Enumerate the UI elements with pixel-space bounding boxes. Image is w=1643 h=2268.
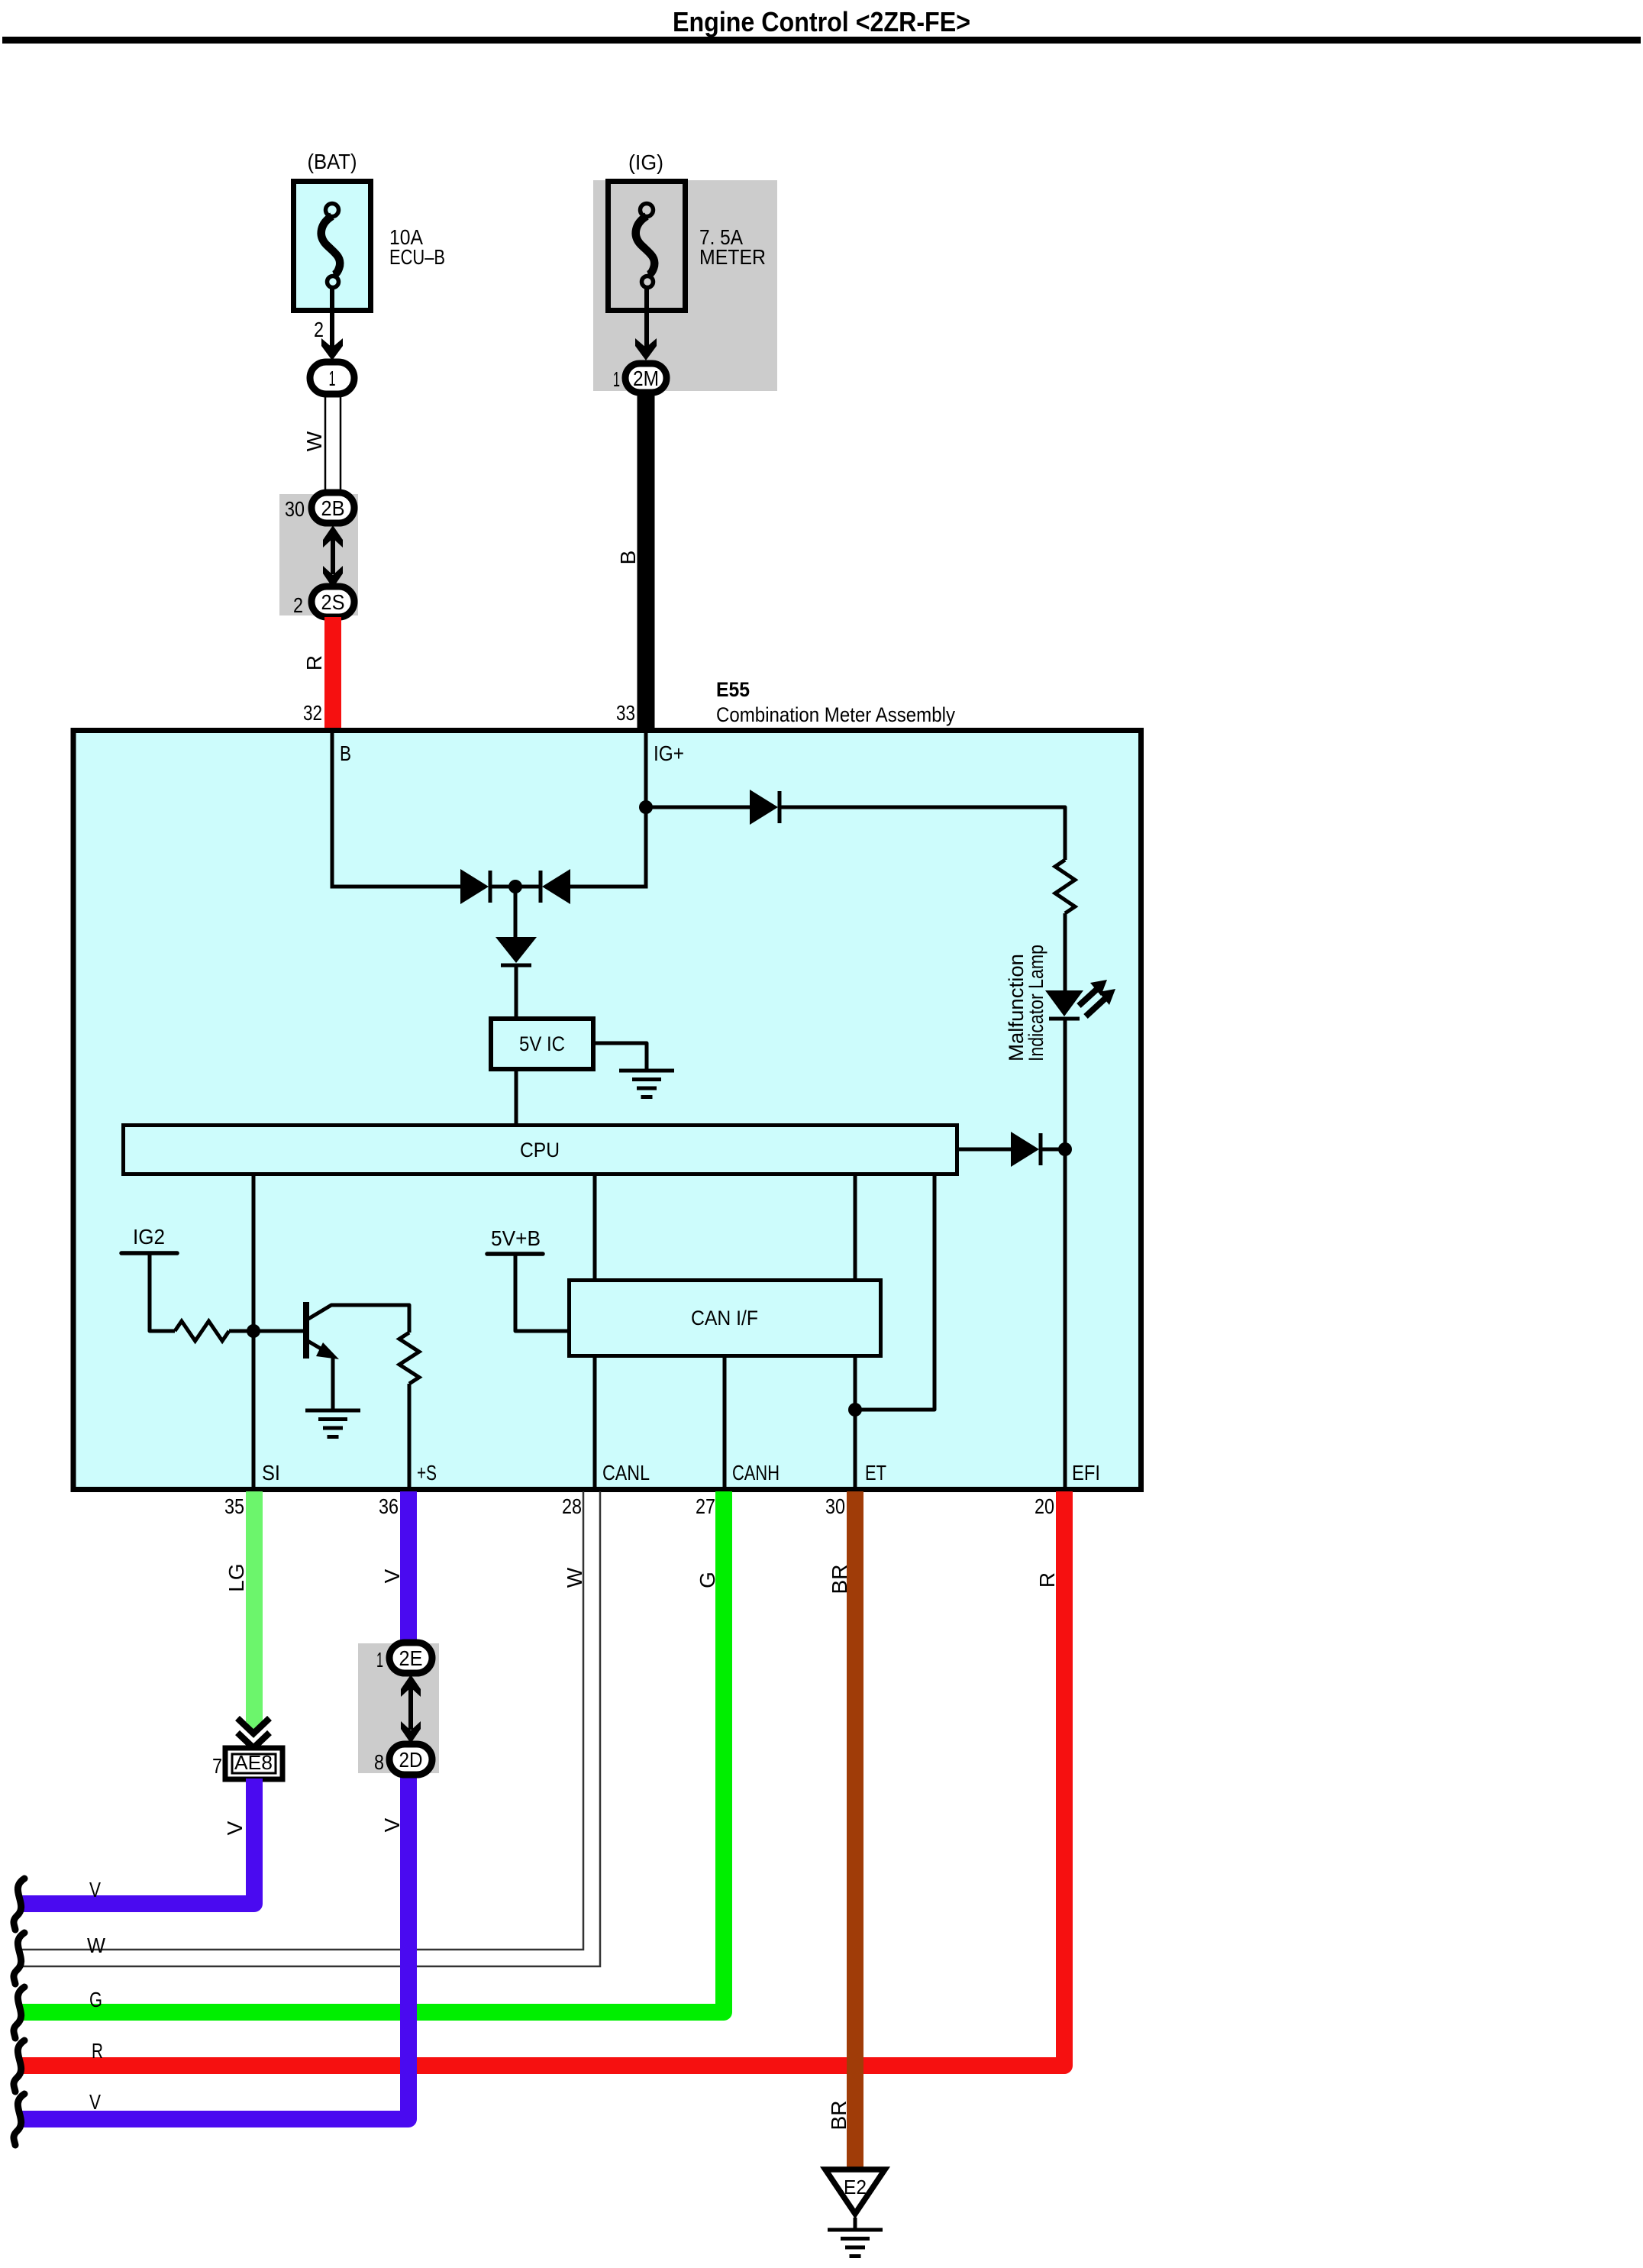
wire V +S upper segment (violet) bbox=[400, 1491, 417, 1645]
svg-text:SI: SI bbox=[262, 1461, 280, 1485]
wire ET from CAN I/F bbox=[854, 1358, 857, 1489]
wire CANH from CAN I/F bbox=[723, 1358, 727, 1489]
connector 2M bbox=[625, 363, 667, 393]
svg-text:2S: 2S bbox=[321, 590, 345, 614]
svg-text:2D: 2D bbox=[399, 1748, 423, 1772]
CAN I/F box bbox=[570, 1281, 881, 1356]
diode D2 left bbox=[542, 869, 570, 904]
gray background behind connectors 2B/2S bbox=[279, 494, 358, 615]
svg-text:CANL: CANL bbox=[602, 1461, 650, 1485]
wire CANL from CAN I/F bbox=[593, 1358, 597, 1489]
wire IG+ pin down bbox=[644, 733, 648, 889]
gray background behind connectors 2E/2D bbox=[358, 1643, 439, 1773]
svg-text:2B: 2B bbox=[321, 496, 345, 520]
wire node to diode D4 bbox=[514, 887, 518, 939]
connector 2B bbox=[311, 493, 354, 523]
EFI node bbox=[1058, 1142, 1072, 1156]
wire LED to EFI node bbox=[1064, 1019, 1067, 1149]
title rule bbox=[2, 37, 1641, 44]
svg-text:R: R bbox=[92, 2039, 103, 2063]
wire V from AE8 (violet) bbox=[21, 1779, 254, 1904]
svg-text:BR: BR bbox=[827, 2101, 851, 2131]
svg-text:5V+B: 5V+B bbox=[491, 1226, 541, 1250]
svg-text:1: 1 bbox=[376, 1648, 383, 1672]
wire fuse METER to connector 2M bbox=[644, 289, 649, 348]
wire BR ET to E2 (brown) bbox=[847, 1491, 863, 2167]
svg-text:W: W bbox=[563, 1567, 586, 1588]
svg-text:V: V bbox=[223, 1821, 247, 1835]
wire IG+ node to diode D3 bbox=[646, 806, 750, 809]
svg-text:ECU–B: ECU–B bbox=[389, 245, 445, 269]
svg-text:28: 28 bbox=[562, 1494, 582, 1518]
wire B to diode pair bbox=[331, 885, 462, 889]
wire D2 to IG+ line bbox=[570, 885, 647, 889]
svg-text:8: 8 bbox=[374, 1750, 384, 1774]
wire R from 2S to pin 32 (red) bbox=[324, 617, 341, 728]
wire resistor to SI node bbox=[229, 1329, 255, 1333]
resistor base bbox=[175, 1321, 229, 1341]
wire D5 to EFI node bbox=[1042, 1148, 1065, 1152]
svg-text:V: V bbox=[89, 2090, 101, 2114]
ground E2 bbox=[825, 2169, 885, 2214]
wire V 2D to harness (violet) bbox=[21, 1772, 408, 2119]
svg-text:CPU: CPU bbox=[520, 1139, 560, 1161]
node on IG+ line bbox=[639, 800, 653, 814]
svg-text:E2: E2 bbox=[844, 2176, 867, 2199]
wire 5V IC to CPU bbox=[515, 1071, 518, 1123]
wire D4 to 5V IC bbox=[515, 967, 518, 1016]
wire emitter to ground bbox=[331, 1355, 335, 1410]
CPU box bbox=[124, 1126, 957, 1174]
wire resistor to +S pin bbox=[408, 1384, 412, 1489]
svg-text:2: 2 bbox=[314, 318, 324, 341]
svg-text:Combination Meter Assembly: Combination Meter Assembly bbox=[716, 703, 955, 726]
harness break V bbox=[14, 1879, 24, 1930]
ground at transistor bbox=[305, 1409, 360, 1413]
svg-text:V: V bbox=[89, 1878, 101, 1901]
harness break W bbox=[14, 1933, 24, 1984]
diode D4 down bbox=[495, 937, 537, 963]
harness break G bbox=[14, 1987, 24, 2038]
ground at 5V IC bbox=[619, 1069, 674, 1073]
wire base lead bbox=[255, 1329, 303, 1333]
E55 combination meter assembly box bbox=[73, 731, 1141, 1490]
SI node bbox=[247, 1324, 260, 1338]
arrow between 2B and 2S bbox=[331, 538, 335, 574]
svg-text:1: 1 bbox=[329, 367, 336, 390]
transistor Q1 emitter bbox=[308, 1341, 330, 1354]
svg-text:R: R bbox=[1035, 1572, 1059, 1588]
gray background behind METER fuse bbox=[593, 180, 777, 391]
diode D3 right bbox=[750, 790, 778, 825]
wire CPU to CAN I/F right bbox=[854, 1176, 857, 1278]
svg-text:7: 7 bbox=[212, 1754, 222, 1778]
ET node bbox=[848, 1403, 862, 1417]
wire 5V+B to CAN I/F bbox=[515, 1254, 567, 1331]
wire LG SI (light green) bbox=[246, 1491, 263, 1722]
fuse METER 7.5A bbox=[608, 182, 686, 311]
wire R EFI to harness (red) bbox=[21, 1491, 1064, 2066]
svg-text:R: R bbox=[302, 655, 326, 670]
svg-text:AE8: AE8 bbox=[234, 1751, 273, 1774]
svg-text:IG+: IG+ bbox=[654, 741, 684, 765]
wire IG2 to resistor bbox=[150, 1253, 175, 1331]
svg-text:(BAT): (BAT) bbox=[308, 150, 357, 173]
svg-text:2E: 2E bbox=[399, 1646, 423, 1670]
wire B pin down bbox=[331, 733, 334, 887]
svg-text:30: 30 bbox=[825, 1494, 845, 1518]
connector 2S bbox=[311, 586, 354, 617]
svg-text:5V IC: 5V IC bbox=[519, 1032, 565, 1055]
svg-text:LG: LG bbox=[224, 1563, 248, 1591]
svg-text:36: 36 bbox=[379, 1494, 399, 1518]
wire D1 to node bbox=[492, 885, 539, 889]
svg-text:W: W bbox=[87, 1934, 106, 1957]
svg-text:33: 33 bbox=[616, 701, 635, 725]
svg-text:B: B bbox=[616, 551, 640, 565]
svg-text:(IG): (IG) bbox=[628, 150, 663, 174]
wire SI line from CPU to SI pin bbox=[252, 1176, 256, 1489]
svg-text:B: B bbox=[340, 741, 351, 765]
svg-text:20: 20 bbox=[1035, 1494, 1054, 1518]
connector AE8 bbox=[225, 1748, 282, 1779]
fuse ECU-B 10A bbox=[294, 182, 371, 311]
wire 5V IC to ground bbox=[596, 1043, 647, 1069]
wire CPU to CAN I/F left bbox=[593, 1176, 597, 1278]
wire resistor to LED bbox=[1064, 913, 1067, 991]
IG2 supply bar bbox=[121, 1251, 177, 1255]
connector 1 bbox=[310, 362, 354, 394]
node at diode pair bbox=[508, 880, 522, 893]
5V IC box bbox=[491, 1019, 593, 1069]
svg-text:EFI: EFI bbox=[1072, 1461, 1100, 1485]
svg-text:IG2: IG2 bbox=[133, 1225, 165, 1249]
svg-text:METER: METER bbox=[699, 245, 766, 269]
diode D5 right bbox=[1011, 1132, 1039, 1167]
svg-text:Indicator Lamp: Indicator Lamp bbox=[1025, 945, 1047, 1061]
arrow between 2E and 2D bbox=[408, 1688, 413, 1730]
LED MIL (malfunction indicator lamp) bbox=[1045, 990, 1083, 1016]
wire EFI node to EFI pin bbox=[1064, 1149, 1067, 1489]
wire ET node to CPU bbox=[855, 1176, 934, 1410]
wire fuse ECU-B to connector 1 bbox=[330, 289, 334, 348]
harness break V lower bbox=[14, 2094, 24, 2145]
wire D3 to MIL resistor corner bbox=[781, 807, 1065, 860]
svg-text:30: 30 bbox=[285, 497, 305, 521]
arrow into connector 2M bbox=[635, 338, 657, 360]
diode D1 right bbox=[460, 869, 489, 904]
svg-text:G: G bbox=[696, 1572, 719, 1588]
connector 2D bbox=[389, 1744, 432, 1775]
svg-text:1: 1 bbox=[613, 367, 620, 391]
svg-text:35: 35 bbox=[224, 1494, 244, 1518]
svg-text:32: 32 bbox=[303, 701, 322, 725]
wire G CANH to harness (green) bbox=[21, 1491, 724, 2012]
svg-text:V: V bbox=[380, 1817, 404, 1832]
wire B from 2M to pin 33 (black) bbox=[638, 393, 655, 728]
svg-text:ET: ET bbox=[865, 1461, 886, 1485]
svg-text:W: W bbox=[302, 431, 326, 451]
svg-text:E55: E55 bbox=[716, 678, 750, 701]
arrow into connector 1 bbox=[321, 338, 343, 360]
svg-text:CAN I/F: CAN I/F bbox=[691, 1307, 758, 1329]
svg-text:CANH: CANH bbox=[732, 1461, 780, 1485]
svg-text:+S: +S bbox=[417, 1461, 437, 1485]
5V+B supply bar bbox=[487, 1252, 543, 1256]
svg-text:27: 27 bbox=[696, 1494, 715, 1518]
wire W CANL to harness (white) bbox=[21, 1491, 600, 1966]
wire W connector 1 to 2B (white) bbox=[324, 394, 327, 495]
svg-text:BR: BR bbox=[828, 1565, 851, 1594]
connector 2E bbox=[389, 1643, 432, 1673]
svg-text:2M: 2M bbox=[633, 367, 659, 390]
resistor MIL bbox=[1055, 860, 1075, 913]
svg-text:2: 2 bbox=[293, 593, 303, 617]
transistor Q1 collector bbox=[308, 1305, 409, 1333]
svg-text:G: G bbox=[89, 1988, 102, 2011]
arrow into AE8 bbox=[246, 1720, 262, 1738]
wire CPU to diode D5 bbox=[959, 1148, 1012, 1152]
resistor +S pullup bbox=[399, 1333, 419, 1384]
svg-text:V: V bbox=[380, 1569, 404, 1583]
transistor Q1 base bar bbox=[303, 1302, 309, 1359]
svg-text:Engine Control <2ZR-FE>: Engine Control <2ZR-FE> bbox=[673, 6, 970, 37]
harness break R bbox=[14, 2040, 24, 2092]
